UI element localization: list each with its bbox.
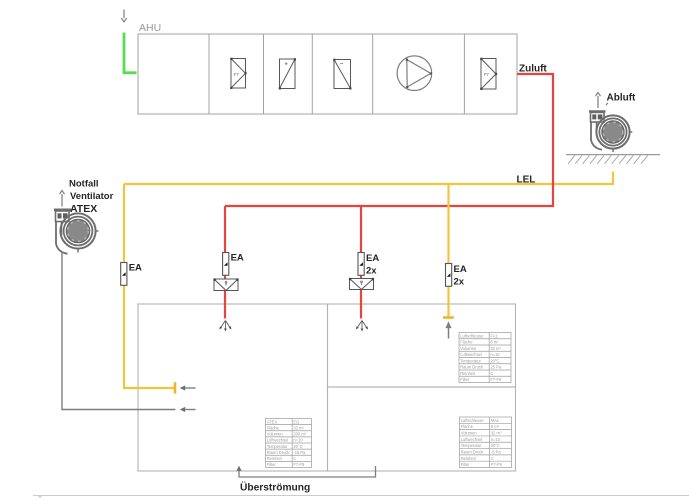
- svg-text:-15 Pa: -15 Pa: [293, 450, 306, 455]
- svg-text:200 m³: 200 m³: [293, 432, 306, 437]
- svg-text:Fläche: Fläche: [267, 425, 280, 430]
- AHU casing box: [138, 34, 517, 114]
- svg-text:Fläche: Fläche: [460, 340, 473, 345]
- svg-text:Zuluft: Zuluft: [519, 64, 547, 75]
- cooling coil -: [333, 59, 351, 90]
- svg-text:Reinheit: Reinheit: [460, 371, 476, 376]
- EA sensor 4 (yellow branch, 2x): [446, 264, 467, 288]
- room data table airlock MAL: [460, 417, 512, 468]
- supply duct (red): [225, 74, 553, 206]
- supply diffuser airlock: [356, 321, 368, 332]
- filter F7 (final): [480, 58, 497, 90]
- exhaust fan (centrifugal): [589, 103, 632, 152]
- svg-text:Ventilator: Ventilator: [70, 191, 114, 202]
- svg-text:Luftschleuse: Luftschleuse: [460, 333, 484, 338]
- airlock room top right: [328, 304, 516, 387]
- EA sensor 2 (red branch 1): [223, 253, 244, 276]
- air outlet arrow (yellow duct): [180, 385, 196, 390]
- svg-text:20°C: 20°C: [490, 358, 499, 363]
- svg-text:FA1: FA1: [490, 333, 498, 338]
- emergency fan ATEX (centrifugal): [54, 210, 99, 254]
- svg-text:Temperatur: Temperatur: [460, 358, 481, 363]
- room data table airlock FA1: [459, 333, 511, 383]
- heating coil +: [279, 58, 296, 89]
- air outlet arrow (emergency duct): [180, 407, 196, 412]
- svg-text:n=10: n=10: [491, 437, 501, 442]
- bottom border line: [33, 495, 689, 497]
- svg-text:ATEX: ATEX: [267, 419, 278, 424]
- exhaust arrow airlock: [446, 323, 451, 339]
- room data table EG: [266, 419, 312, 468]
- svg-text:8 m²: 8 m²: [490, 340, 499, 345]
- svg-text:Volumen: Volumen: [267, 432, 284, 437]
- svg-text:C: C: [293, 456, 296, 461]
- svg-text:8 m²: 8 m²: [491, 424, 500, 429]
- emergency fan exhaust arrow: [60, 191, 65, 207]
- svg-text:Notfall: Notfall: [69, 179, 99, 190]
- svg-text:Abluft: Abluft: [607, 93, 637, 104]
- svg-text:Temperatur: Temperatur: [267, 444, 288, 449]
- supply fan circle: [397, 56, 432, 91]
- supply diffuser room EG: [219, 321, 231, 332]
- svg-text:2x: 2x: [454, 277, 465, 288]
- svg-text:-5 Pa: -5 Pa: [491, 449, 502, 454]
- outside air arrow: [121, 10, 126, 22]
- svg-text:Raum Druck: Raum Druck: [267, 450, 291, 455]
- airlock room bottom right: [328, 387, 516, 471]
- svg-text:Luftwechsel: Luftwechsel: [267, 438, 289, 443]
- svg-text:Reinheit: Reinheit: [267, 456, 283, 461]
- exhaust air arrow: [596, 93, 601, 109]
- svg-text:Luftwechsel: Luftwechsel: [460, 352, 482, 357]
- svg-text:F7: F7: [484, 72, 490, 77]
- svg-text:Volumen: Volumen: [461, 431, 478, 436]
- svg-text:AHU: AHU: [139, 22, 161, 34]
- yellow branch to airlock: [447, 184, 449, 317]
- svg-text:F7-F9: F7-F9: [490, 377, 502, 382]
- svg-text:MAL: MAL: [491, 418, 500, 423]
- supply damper 2: [349, 278, 374, 290]
- filter F7 (pre-filter): [230, 58, 246, 89]
- yellow branch left to room EG: [124, 184, 174, 388]
- svg-text:EA: EA: [129, 263, 142, 274]
- svg-text:C: C: [491, 456, 494, 461]
- svg-text:EG: EG: [293, 419, 299, 424]
- yellow diffuser bar left: [174, 382, 177, 393]
- svg-text:Reinheit: Reinheit: [461, 456, 477, 461]
- room EG (left): [138, 304, 328, 471]
- svg-text:EA: EA: [231, 253, 244, 264]
- pipe from emergency fan: [62, 253, 176, 410]
- svg-text:Temperatur: Temperatur: [461, 443, 482, 448]
- svg-text:+: +: [285, 62, 288, 68]
- svg-text:n=10: n=10: [490, 352, 500, 357]
- AHU section dividers: [208, 34, 210, 114]
- svg-text:Raum Druck: Raum Druck: [460, 365, 484, 370]
- svg-text:20°C: 20°C: [491, 443, 500, 448]
- EA sensor 3 (red branch 2, 2x): [358, 253, 379, 277]
- svg-text:Fläche: Fläche: [461, 424, 474, 429]
- svg-text:n=10: n=10: [293, 438, 303, 443]
- svg-text:C: C: [490, 371, 493, 376]
- supply damper 1: [213, 278, 238, 290]
- svg-text:33 m²: 33 m²: [293, 425, 304, 430]
- LEL sensing line (yellow): [124, 172, 613, 185]
- outside air duct (green): [124, 33, 137, 73]
- red branch airlock: [360, 206, 362, 319]
- svg-text:LEL: LEL: [517, 175, 536, 186]
- svg-text:Filter: Filter: [267, 462, 277, 467]
- red branch room EG: [224, 206, 226, 319]
- svg-text:Luftwechsel: Luftwechsel: [461, 437, 483, 442]
- svg-text:F7: F7: [234, 72, 240, 77]
- svg-text:EA: EA: [454, 264, 467, 275]
- svg-text:−: −: [340, 62, 343, 68]
- svg-text:Raum Druck: Raum Druck: [461, 449, 485, 454]
- transfer air duct: [239, 466, 376, 477]
- EA sensor 1 (yellow line left): [121, 263, 142, 286]
- transfer air arrow: [236, 466, 241, 471]
- svg-text:Überströmung: Überströmung: [240, 481, 310, 494]
- svg-text:Luftschleuse: Luftschleuse: [461, 418, 485, 423]
- svg-text:25 Pa: 25 Pa: [490, 365, 501, 370]
- svg-text:32 m³: 32 m³: [490, 346, 501, 351]
- svg-text:2x: 2x: [366, 266, 377, 277]
- svg-text:Volumen: Volumen: [460, 346, 477, 351]
- yellow diffuser bar airlock: [443, 316, 454, 319]
- svg-text:20°C: 20°C: [293, 444, 302, 449]
- svg-text:32 m³: 32 m³: [491, 431, 502, 436]
- ground hatch: [566, 155, 660, 164]
- svg-text:F7-F9: F7-F9: [293, 462, 305, 467]
- svg-text:Filter: Filter: [460, 377, 470, 382]
- svg-text:EA: EA: [366, 253, 379, 264]
- svg-text:Filter: Filter: [461, 462, 471, 467]
- svg-text:F7-F9: F7-F9: [491, 462, 503, 467]
